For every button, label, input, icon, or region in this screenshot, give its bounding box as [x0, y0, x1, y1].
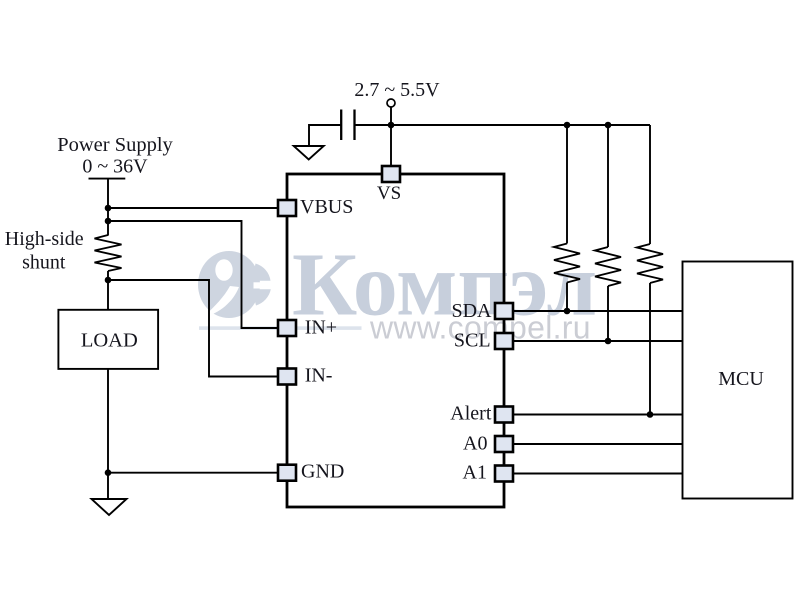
node junction IN+ tap	[105, 218, 112, 225]
wire SCL to MCU	[513, 340, 683, 342]
wire terminal to VS	[390, 107, 392, 166]
watermark logo	[198, 251, 273, 318]
svg-text:VBUS: VBUS	[300, 196, 353, 218]
svg-text:VS: VS	[377, 183, 401, 204]
resistor R2 pullup SCL	[607, 125, 609, 247]
svg-text:2.7 ~ 5.5V: 2.7 ~ 5.5V	[354, 79, 440, 101]
pin VS	[382, 166, 400, 182]
svg-text:A1: A1	[463, 462, 487, 484]
wire LOAD bottom to ground	[107, 369, 109, 499]
pin SDA	[495, 303, 513, 319]
wire to IN+ pin	[108, 221, 279, 328]
IC body INA	[287, 174, 504, 507]
pin SCL	[495, 333, 513, 349]
node junction IN- tap	[105, 277, 112, 284]
pin IN+	[278, 320, 296, 336]
wire Alert to MCU	[513, 414, 683, 416]
svg-text:SCL: SCL	[454, 330, 491, 352]
node junction R2 top	[605, 122, 612, 129]
wire to IN- pin	[108, 280, 279, 377]
resistor R3 pullup Alert	[649, 125, 651, 244]
svg-text:A0: A0	[463, 432, 487, 454]
ground symbol top	[294, 146, 324, 160]
node open terminal 2.7-5.5V	[387, 99, 395, 107]
pin IN-	[278, 369, 296, 385]
wire A1 to MCU	[513, 473, 683, 475]
ground symbol left	[92, 499, 127, 515]
pin VBUS	[278, 200, 296, 216]
svg-text:IN-: IN-	[305, 365, 333, 387]
wire capacitor to ground	[309, 125, 341, 147]
node junction R3 Alert	[647, 411, 654, 418]
wire shunt bottom to LOAD	[107, 271, 109, 311]
node junction R2 SCL	[605, 338, 612, 345]
wire supply vertical to shunt	[107, 179, 109, 236]
capacitor bypass	[340, 110, 342, 141]
node junction R1 top	[564, 122, 571, 129]
wire to VBUS pin	[108, 207, 279, 209]
pin A1	[495, 466, 513, 482]
watermark underline band	[199, 326, 362, 330]
pin Alert	[495, 407, 513, 423]
pin GND	[278, 465, 296, 481]
wire to GND pin	[108, 472, 279, 474]
node junction R1 SDA	[564, 308, 571, 315]
node junction VS rail	[388, 122, 395, 129]
svg-text:IN+: IN+	[305, 317, 337, 339]
svg-text:Alert: Alert	[450, 403, 492, 425]
svg-text:GND: GND	[301, 461, 344, 483]
node junction GND tap	[105, 469, 112, 476]
svg-text:shunt: shunt	[22, 252, 66, 274]
load box	[58, 310, 158, 369]
resistor high-side shunt	[95, 235, 122, 271]
svg-text:0 ~ 36V: 0 ~ 36V	[82, 155, 148, 177]
svg-text:Power Supply: Power Supply	[57, 134, 173, 156]
svg-text:High-side: High-side	[5, 228, 84, 250]
svg-text:SDA: SDA	[451, 300, 492, 322]
pin A0	[495, 436, 513, 452]
svg-text:MCU: MCU	[718, 368, 764, 390]
svg-text:LOAD: LOAD	[81, 329, 138, 351]
resistor R1 pullup SDA	[566, 125, 568, 244]
node supply terminal bar 0~36V	[89, 178, 126, 180]
MCU box	[683, 262, 793, 499]
wire supply rail top	[355, 124, 650, 126]
wire A0 to MCU	[513, 443, 683, 445]
node junction VBUS tap	[105, 205, 112, 212]
wire SDA to MCU	[513, 310, 683, 312]
